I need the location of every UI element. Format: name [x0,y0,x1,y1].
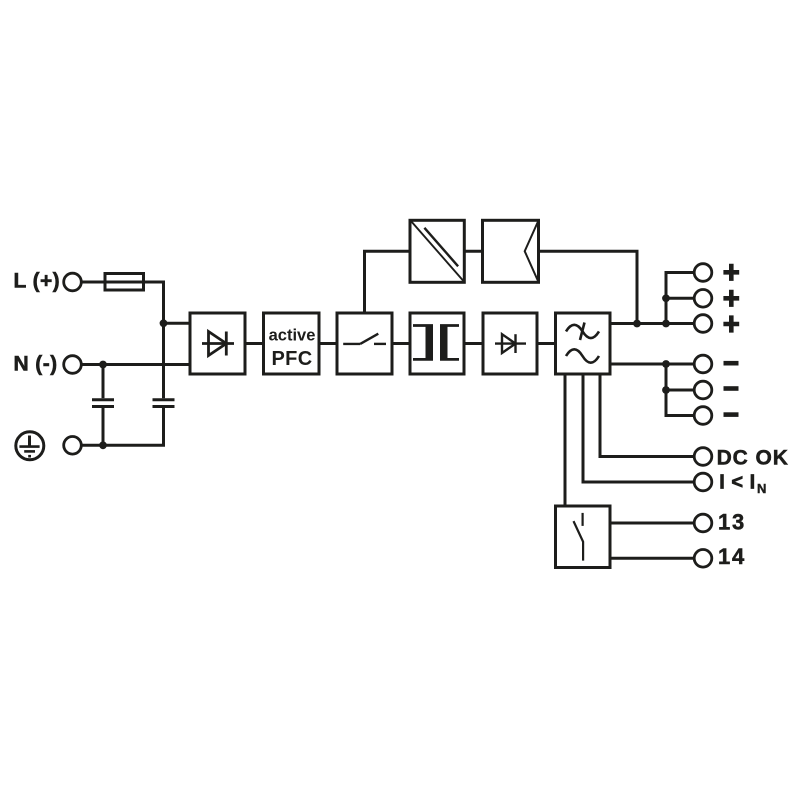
svg-text:N: N [757,481,766,496]
svg-text:13: 13 [718,509,746,534]
svg-text:L (+): L (+) [14,270,61,293]
svg-text:PFC: PFC [272,348,313,370]
svg-text:I < I: I < I [719,472,755,494]
svg-text:14: 14 [718,544,746,569]
svg-text:N (-): N (-) [14,353,58,376]
svg-text:DC OK: DC OK [717,446,789,469]
svg-text:active: active [269,327,316,345]
